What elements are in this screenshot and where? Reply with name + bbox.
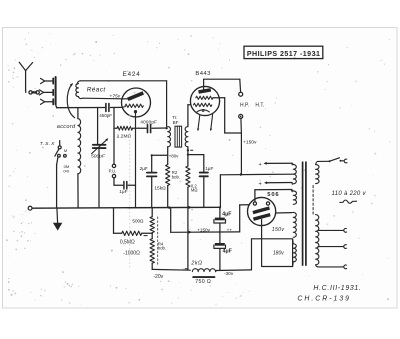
svg-text:+150v: +150v — [197, 227, 211, 232]
svg-text:H.P.: H.P. — [240, 102, 249, 108]
svg-text:PHILIPS 2517 -1931: PHILIPS 2517 -1931 — [247, 50, 321, 58]
svg-text:4000pF: 4000pF — [140, 120, 157, 125]
svg-text:+80v: +80v — [169, 154, 179, 159]
svg-text:+: + — [259, 181, 262, 187]
svg-text:506: 506 — [267, 192, 279, 198]
svg-text:MΩ: MΩ — [191, 188, 198, 193]
svg-text:M: M — [64, 148, 67, 153]
svg-text:450pF: 450pF — [99, 113, 112, 118]
svg-text:180v: 180v — [273, 251, 284, 257]
svg-text:-20v: -20v — [153, 274, 163, 280]
svg-text:H.C.III-1931.: H.C.III-1931. — [313, 285, 361, 292]
svg-text:500Ω: 500Ω — [132, 219, 144, 224]
svg-text:500pF: 500pF — [91, 153, 106, 159]
svg-text:2μF: 2μF — [140, 166, 148, 171]
svg-text:15kΩ: 15kΩ — [154, 186, 166, 192]
svg-text:1.2MΩ: 1.2MΩ — [117, 133, 132, 139]
svg-text:110 à 220 v: 110 à 220 v — [332, 191, 367, 197]
svg-text:4μF: 4μF — [222, 211, 231, 217]
svg-text:1μF: 1μF — [205, 166, 213, 171]
svg-text:2kΩ: 2kΩ — [190, 261, 202, 267]
svg-text:bob.: bob. — [172, 175, 180, 180]
svg-text:accord: accord — [57, 124, 76, 130]
svg-text:E424: E424 — [123, 71, 141, 78]
svg-text:+: + — [259, 162, 262, 168]
svg-text:4μF: 4μF — [223, 249, 232, 255]
svg-text:Réact: Réact — [87, 87, 106, 94]
svg-text:bob.: bob. — [158, 246, 166, 251]
svg-text:H.T.: H.T. — [255, 102, 264, 108]
svg-text:P.U.: P.U. — [109, 169, 117, 174]
svg-text:B443: B443 — [195, 71, 211, 77]
svg-text:0-0: 0-0 — [63, 168, 70, 173]
svg-text:0,5MΩ: 0,5MΩ — [120, 240, 135, 246]
svg-text:-1000Ω: -1000Ω — [123, 251, 140, 257]
svg-text:750 Ω: 750 Ω — [195, 279, 211, 285]
svg-text:150v: 150v — [272, 227, 285, 233]
svg-text:+150v: +150v — [243, 140, 257, 146]
svg-text:CH.CR-139: CH.CR-139 — [297, 296, 351, 303]
svg-text:+75v: +75v — [109, 93, 120, 99]
svg-text:BF: BF — [173, 120, 179, 125]
svg-text:1μF: 1μF — [119, 189, 127, 194]
svg-text:++: ++ — [227, 227, 233, 232]
svg-text:T.S.X: T.S.X — [40, 141, 55, 147]
svg-text:-30v: -30v — [224, 271, 234, 277]
